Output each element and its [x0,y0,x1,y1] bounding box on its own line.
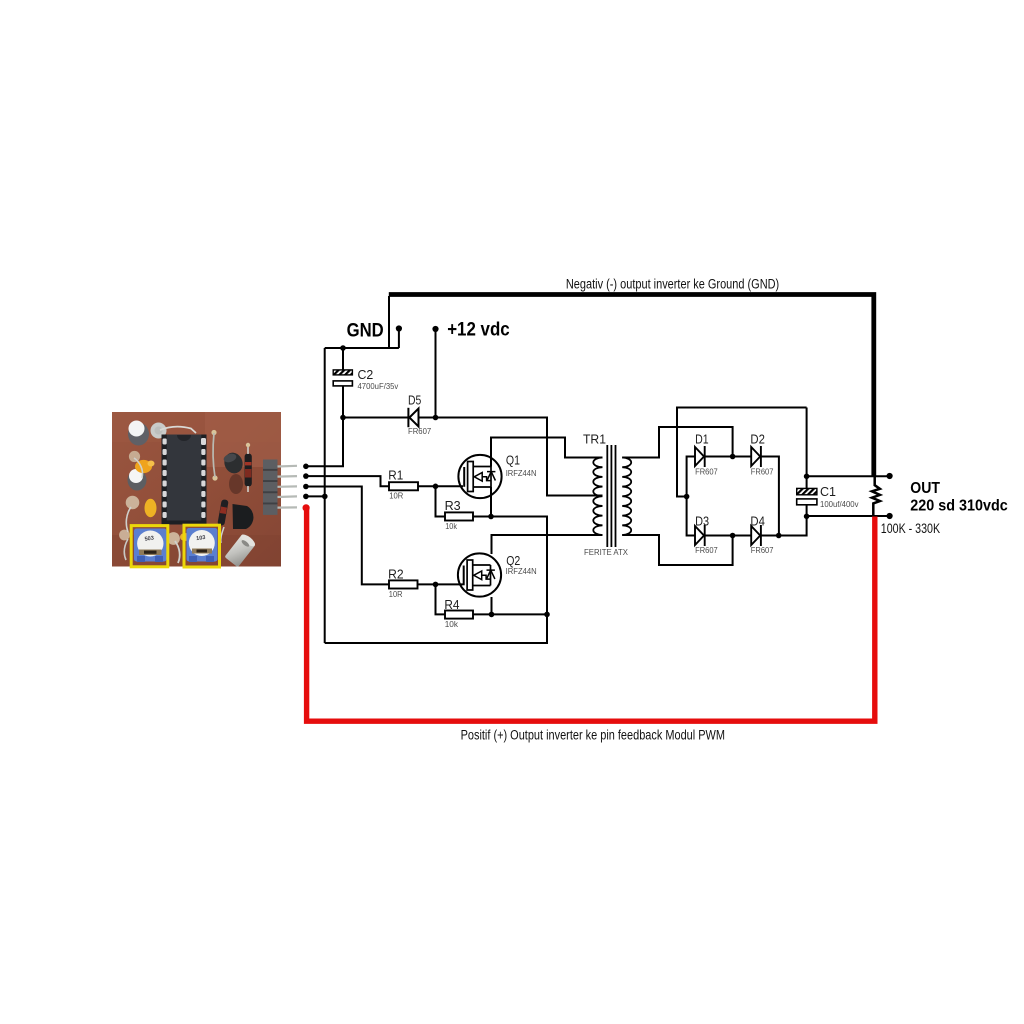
svg-text:D3: D3 [695,513,709,528]
svg-text:Q1: Q1 [506,452,520,467]
svg-text:4700uF/35v: 4700uF/35v [358,381,400,391]
svg-text:10k: 10k [445,521,457,531]
svg-text:Positif (+) Output inverter ke: Positif (+) Output inverter ke pin feedb… [461,727,725,742]
svg-text:R1: R1 [388,468,403,483]
svg-text:R4: R4 [444,597,459,612]
svg-text:100K - 330K: 100K - 330K [881,521,940,536]
svg-text:FERITE ATX: FERITE ATX [584,547,628,557]
svg-text:FR607: FR607 [751,545,774,555]
svg-text:10R: 10R [389,490,403,500]
svg-text:IRFZ44N: IRFZ44N [506,468,537,478]
svg-text:TR1: TR1 [583,431,606,446]
svg-text:C2: C2 [358,367,374,382]
svg-text:IRFZ44N: IRFZ44N [506,566,537,576]
svg-text:FR607: FR607 [695,545,718,555]
svg-text:R3: R3 [445,498,461,513]
svg-text:D4: D4 [750,513,765,528]
svg-text:+12 vdc: +12 vdc [447,320,510,341]
svg-text:220 sd 310vdc: 220 sd 310vdc [910,498,1008,515]
svg-text:FR607: FR607 [408,426,432,436]
svg-text:D1: D1 [695,432,709,447]
svg-text:OUT: OUT [910,480,940,497]
svg-text:10k: 10k [445,619,459,629]
svg-text:FR607: FR607 [695,467,718,477]
svg-text:FR607: FR607 [751,467,774,477]
svg-text:R2: R2 [388,566,404,581]
svg-text:D5: D5 [408,392,421,407]
svg-text:D2: D2 [750,432,765,447]
svg-text:C1: C1 [820,484,836,499]
svg-text:Negativ (-) output inverter ke: Negativ (-) output inverter ke Ground (G… [566,277,779,292]
svg-text:100uf/400v: 100uf/400v [820,499,859,509]
svg-text:GND: GND [347,321,384,342]
svg-text:10R: 10R [389,589,403,599]
